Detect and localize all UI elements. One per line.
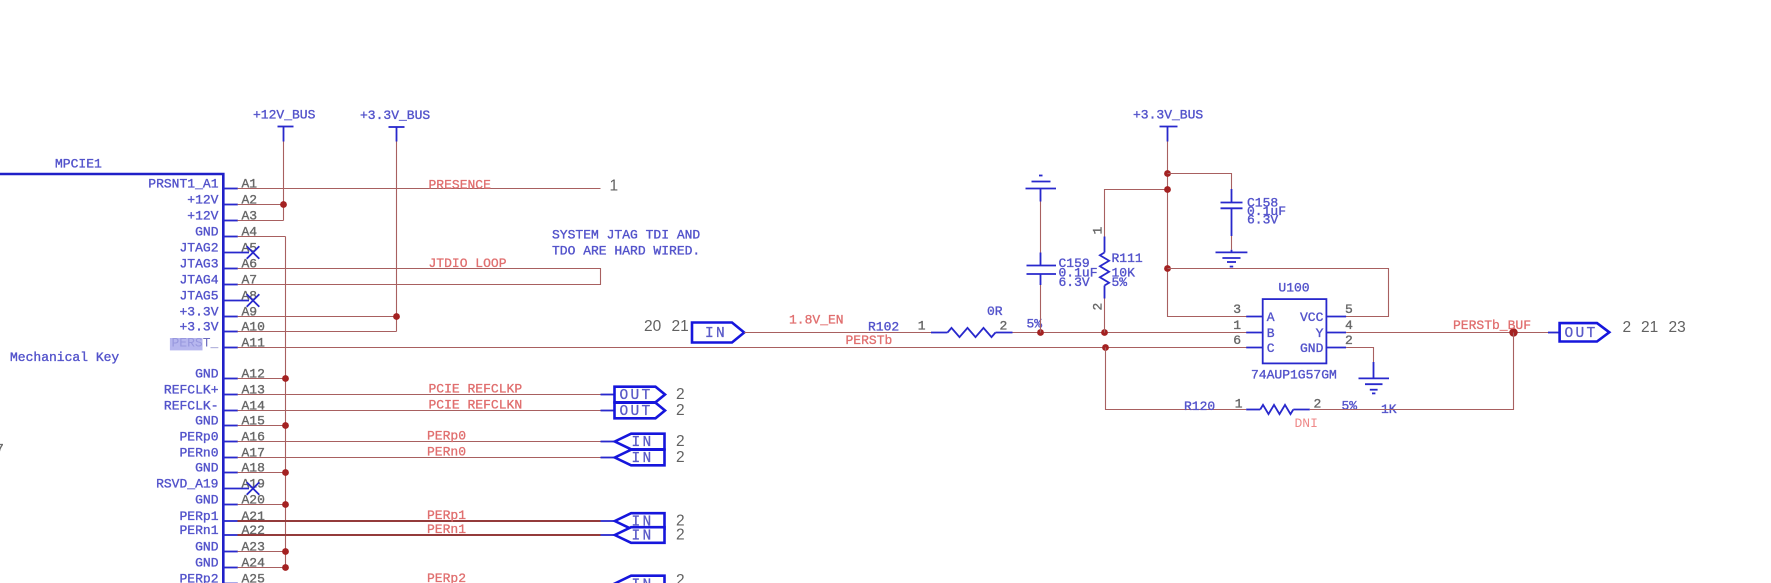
svg-text:2: 2: [1623, 319, 1632, 336]
junction dot C158 branch: [1164, 170, 1171, 177]
wire R120 to PERSTb_BUF: [1310, 333, 1514, 410]
svg-text:R102: R102: [868, 320, 899, 335]
wire net PERn0: [238, 457, 601, 459]
junction dot R111 branch: [1101, 329, 1108, 336]
svg-text:C: C: [1267, 341, 1275, 356]
svg-text:21: 21: [1641, 319, 1658, 336]
junction dot C159 branch: [1037, 329, 1044, 336]
wire net PERp0: [238, 441, 601, 443]
port IN 1.8V_EN (pointing right): [692, 323, 744, 343]
svg-text:JTAG5: JTAG5: [179, 289, 218, 304]
wire rail R111 top to +3.3V bus: [1105, 190, 1168, 237]
svg-text:7: 7: [0, 442, 4, 457]
junction dot R111 rail: [1164, 186, 1171, 193]
pin A4 stub: [223, 236, 238, 238]
pin A21 stub: [223, 520, 238, 522]
svg-text:5: 5: [1345, 302, 1353, 317]
wire net PERn1: [238, 534, 601, 536]
svg-text:+12V_BUS: +12V_BUS: [253, 108, 316, 123]
pin A9 stub: [223, 316, 238, 318]
svg-text:2: 2: [676, 402, 685, 419]
svg-text:A20: A20: [242, 493, 265, 508]
svg-text:+3.3V_BUS: +3.3V_BUS: [360, 108, 430, 123]
port IN PERp1: [615, 513, 665, 529]
svg-text:REFCLK-: REFCLK-: [164, 399, 219, 414]
svg-text:PERp1: PERp1: [427, 508, 466, 523]
no-connect X mark on pin A19: [247, 482, 260, 495]
svg-text:5%: 5%: [1342, 399, 1358, 414]
capacitor C159: [1027, 253, 1057, 286]
svg-text:PCIE REFCLKP: PCIE REFCLKP: [429, 382, 523, 397]
pin A11 name PERST_: [170, 336, 219, 351]
svg-text:PERp2: PERp2: [179, 572, 218, 583]
svg-text:IN: IN: [705, 326, 727, 342]
svg-text:A9: A9: [242, 305, 258, 320]
svg-text:2: 2: [1000, 319, 1008, 334]
port IN PERp2 (partial): [615, 576, 665, 583]
svg-text:OUT: OUT: [620, 404, 653, 420]
svg-text:IN: IN: [632, 529, 654, 545]
svg-text:GND: GND: [195, 367, 219, 382]
svg-text:A13: A13: [242, 383, 265, 398]
svg-text:GND: GND: [195, 493, 219, 508]
wire pin A4 GND: [238, 236, 286, 238]
ground symbol below U100: [1359, 362, 1390, 393]
U100 pin Y stub (pin 4): [1326, 332, 1346, 334]
svg-text:2: 2: [1091, 303, 1106, 311]
wire pin A12 GND: [238, 378, 286, 380]
wire ground to C159: [1040, 202, 1042, 253]
svg-text:OUT: OUT: [1565, 326, 1598, 342]
svg-text:74AUP1G57GM: 74AUP1G57GM: [1251, 368, 1337, 383]
port OUT PCIE_REFCLKP: [615, 387, 666, 403]
wire pin A10 to +3.3V bus: [238, 331, 397, 333]
svg-text:PERn0: PERn0: [179, 446, 218, 461]
svg-text:A3: A3: [242, 209, 258, 224]
wire pin A15 GND: [238, 425, 286, 427]
svg-text:Mechanical Key: Mechanical Key: [10, 350, 119, 365]
junction dot +3.3V at A9: [393, 313, 400, 320]
svg-text:2: 2: [676, 526, 685, 543]
svg-text:RSVD_A19: RSVD_A19: [156, 477, 218, 492]
wire net PCIE_REFCLKN: [238, 410, 601, 412]
svg-text:A2: A2: [242, 193, 258, 208]
svg-text:2: 2: [676, 449, 685, 466]
svg-text:+3.3V: +3.3V: [179, 305, 218, 320]
svg-text:JTAG2: JTAG2: [179, 241, 218, 256]
svg-text:T_: T_: [203, 336, 219, 351]
svg-text:PERSTb: PERSTb: [846, 333, 893, 348]
pin A12 stub: [223, 378, 238, 380]
U100 pin C stub (pin 6): [1246, 347, 1263, 349]
wire C159 to 1.8V_EN line: [1040, 285, 1042, 333]
svg-text:PRSNT1_A1: PRSNT1_A1: [148, 177, 218, 192]
wire PERSTb down to R120: [1106, 348, 1247, 410]
pin A17 stub: [223, 457, 238, 459]
junction dot VCC rail: [1164, 265, 1171, 272]
wire rail +3.3V to U100 VCC: [1168, 269, 1389, 317]
svg-text:B: B: [1267, 326, 1275, 341]
svg-text:GND: GND: [195, 461, 219, 476]
svg-text:PERn1: PERn1: [427, 522, 466, 537]
svg-text:+12V: +12V: [187, 209, 218, 224]
power symbol +12V_BUS: [253, 108, 316, 142]
wire pin A3 to +12V bus: [238, 220, 284, 222]
wire net PRESENCE from A1: [238, 188, 601, 190]
pin A24 stub: [223, 567, 238, 569]
svg-text:6.3V: 6.3V: [1247, 213, 1278, 228]
pin A1 stub: [223, 188, 238, 190]
svg-text:+12V: +12V: [187, 193, 218, 208]
svg-text:1: 1: [1091, 227, 1106, 235]
svg-text:PCIE REFCLKN: PCIE REFCLKN: [429, 398, 523, 413]
svg-text:REFCLK+: REFCLK+: [164, 383, 219, 398]
pin A8 stub: [223, 300, 249, 302]
svg-text:6: 6: [1233, 333, 1241, 348]
svg-text:DNI: DNI: [1295, 416, 1318, 431]
port IN PERp0: [615, 434, 665, 450]
svg-text:Y: Y: [1316, 326, 1324, 341]
svg-text:A24: A24: [242, 556, 266, 571]
svg-text:A25: A25: [242, 572, 265, 583]
pin A3 stub: [223, 220, 238, 222]
pin A19 stub: [223, 488, 249, 490]
wire U100 GND pin to ground: [1346, 348, 1373, 363]
svg-text:2: 2: [676, 433, 685, 450]
wire net from R102 to U100 pin B: [1013, 332, 1247, 334]
U100 pin GND stub (pin 2): [1326, 347, 1346, 349]
svg-text:PERp2: PERp2: [427, 571, 466, 583]
wire +3.3V bus vertical (left): [396, 142, 398, 332]
wire net PCIE_REFCLKP: [238, 394, 601, 396]
svg-text:A15: A15: [242, 414, 265, 429]
svg-text:1: 1: [1233, 318, 1241, 333]
pin A14 stub: [223, 410, 238, 412]
svg-text:1: 1: [1235, 397, 1243, 412]
wire +3.3V bus vertical (right) down to U100 pin A: [1168, 142, 1247, 317]
svg-text:A17: A17: [242, 446, 265, 461]
earth ground symbol above C159: [1026, 176, 1057, 202]
wire net PERSTb_BUF from U100 Y to OUT port: [1346, 332, 1548, 334]
pin A11 stub: [223, 347, 238, 349]
svg-text:A14: A14: [242, 399, 266, 414]
svg-text:R111: R111: [1112, 251, 1143, 266]
pin A20 stub: [223, 504, 238, 506]
power symbol +3.3V_BUS (right): [1133, 108, 1203, 142]
svg-text:JTDIO LOOP: JTDIO LOOP: [429, 256, 507, 271]
capacitor C158: [1221, 189, 1243, 236]
pin A10 stub: [223, 331, 238, 333]
ground symbol below C158: [1216, 250, 1248, 267]
U100 pin VCC stub (pin 5): [1326, 316, 1346, 318]
svg-text:JTAG3: JTAG3: [179, 257, 218, 272]
port IN PERn0: [615, 450, 665, 466]
wire pin A20 GND: [238, 504, 286, 506]
junction dot GND at A15: [282, 422, 289, 429]
svg-text:PERp0: PERp0: [427, 429, 466, 444]
wire pin A9 to +3.3V bus: [238, 316, 397, 318]
junction dot GND at A23: [282, 548, 289, 555]
svg-text:A23: A23: [242, 540, 265, 555]
resistor R120 1K DNI: [1246, 405, 1310, 414]
svg-text:1: 1: [918, 319, 926, 334]
svg-text:PERn0: PERn0: [427, 445, 466, 460]
pin A23 stub: [223, 551, 238, 553]
svg-text:IN: IN: [632, 578, 654, 583]
no-connect X mark on pin A5: [247, 246, 260, 259]
svg-text:SYSTEM JTAG TDI AND: SYSTEM JTAG TDI AND: [552, 228, 700, 243]
wire pin A23 GND: [238, 551, 286, 553]
svg-text:IN: IN: [632, 451, 654, 467]
resistor R111 10K (vertical): [1100, 237, 1109, 299]
junction dot +12V at A2: [280, 201, 287, 208]
no-connect X mark on pin A8: [247, 294, 260, 307]
wire JTDIO loop A6 to A7: [238, 269, 601, 285]
svg-text:3: 3: [1233, 302, 1241, 317]
svg-text:+3.3V: +3.3V: [179, 320, 218, 335]
svg-text:5%: 5%: [1112, 275, 1128, 290]
svg-text:20: 20: [644, 318, 662, 335]
svg-text:PERS: PERS: [172, 336, 203, 351]
svg-text:R120: R120: [1184, 399, 1215, 414]
wire net 1.8V_EN from port to R102: [744, 332, 931, 334]
wire R111 bottom to 1.8V_EN line: [1104, 299, 1106, 333]
svg-text:1.8V_EN: 1.8V_EN: [789, 313, 844, 328]
svg-text:A10: A10: [242, 320, 265, 335]
pin A7 stub: [223, 284, 238, 286]
svg-text:A: A: [1267, 310, 1275, 325]
svg-text:GND: GND: [195, 225, 219, 240]
svg-text:MPCIE1: MPCIE1: [55, 157, 102, 172]
wire net PERSTb from A11 to U100 pin C: [238, 347, 1247, 349]
svg-text:GND: GND: [195, 540, 219, 555]
junction dot GND at A24: [282, 564, 289, 571]
wire pin A2 to +12V bus: [238, 204, 284, 206]
svg-text:21: 21: [672, 318, 689, 335]
pin A5 stub: [223, 252, 249, 254]
pin A22 stub: [223, 534, 238, 536]
svg-text:U100: U100: [1278, 281, 1309, 296]
U100 pin B stub (pin 1): [1246, 332, 1263, 334]
junction dot PERSTb to R120 branch: [1102, 344, 1109, 351]
svg-text:+3.3V_BUS: +3.3V_BUS: [1133, 108, 1203, 123]
junction dot GND at A12: [282, 375, 289, 382]
pin A16 stub: [223, 441, 238, 443]
wire pin A18 GND: [238, 472, 286, 474]
svg-text:PERSTb_BUF: PERSTb_BUF: [1453, 318, 1531, 333]
svg-text:VCC: VCC: [1300, 310, 1324, 325]
port OUT PCIE_REFCLKN: [615, 403, 666, 419]
svg-text:A1: A1: [242, 177, 258, 192]
svg-text:GND: GND: [1300, 341, 1324, 356]
junction dot GND at A18: [282, 469, 289, 476]
pin A6 stub: [223, 268, 238, 270]
pin A2 stub: [223, 204, 238, 206]
svg-text:A7: A7: [242, 273, 258, 288]
wire GND bus vertical: [285, 237, 287, 568]
wire rail +3.3V to C158: [1168, 174, 1232, 190]
svg-text:JTAG4: JTAG4: [179, 273, 218, 288]
svg-text:A16: A16: [242, 430, 265, 445]
svg-text:1: 1: [610, 178, 619, 195]
svg-text:PERp1: PERp1: [179, 509, 218, 524]
svg-text:PERp0: PERp0: [179, 430, 218, 445]
svg-text:TDO ARE HARD WIRED.: TDO ARE HARD WIRED.: [552, 243, 700, 258]
U100 pin A stub (pin 3): [1246, 316, 1263, 318]
svg-text:6.3V: 6.3V: [1059, 275, 1090, 290]
svg-text:A18: A18: [242, 461, 265, 476]
junction dot GND at A20: [282, 501, 289, 508]
svg-text:23: 23: [1669, 319, 1686, 336]
pin A15 stub: [223, 425, 238, 427]
svg-text:GND: GND: [195, 414, 219, 429]
svg-text:2: 2: [676, 386, 685, 403]
connector MPCIE1 body outline: [0, 174, 223, 583]
svg-text:2: 2: [1345, 333, 1353, 348]
wire +12V bus vertical: [283, 142, 285, 221]
svg-text:0R: 0R: [987, 304, 1003, 319]
svg-text:A12: A12: [242, 367, 265, 382]
svg-text:A11: A11: [242, 336, 266, 351]
svg-text:PERn1: PERn1: [179, 523, 218, 538]
op-amp U100 74AUP1G57GM body: [1263, 299, 1327, 363]
power symbol +3.3V_BUS (left): [360, 108, 430, 142]
svg-text:2: 2: [676, 572, 685, 583]
junction dot PERSTb_BUF: [1509, 328, 1517, 336]
svg-text:PRESENCE: PRESENCE: [429, 178, 492, 193]
wire net PERp1: [238, 520, 601, 522]
pin A18 stub: [223, 472, 238, 474]
port OUT PERSTb_BUF: [1560, 323, 1610, 341]
wire pin A24 GND: [238, 567, 286, 569]
resistor R102 0R: [931, 328, 1013, 337]
svg-text:A6: A6: [242, 257, 258, 272]
svg-text:4: 4: [1345, 318, 1353, 333]
svg-text:GND: GND: [195, 556, 219, 571]
port IN PERn1: [615, 527, 665, 543]
wire C158 to ground: [1231, 236, 1233, 250]
svg-text:A4: A4: [242, 225, 258, 240]
pin A13 stub: [223, 394, 238, 396]
